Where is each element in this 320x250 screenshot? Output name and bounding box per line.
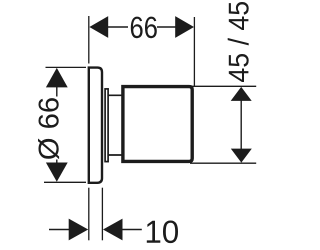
stem top line: [108, 94, 124, 96]
dim 66 top: right arrow: [175, 16, 194, 38]
dim 45/45 right: dimension line: [240, 98, 242, 150]
dim Ø66 left: up arrow: [46, 68, 68, 88]
handle knob (thick outline): [123, 87, 192, 162]
dim 66 top: right extension line: [193, 17, 195, 86]
dim 10 bottom: right tail line: [122, 229, 142, 231]
dim 66 top: value label: [131, 17, 157, 39]
dim 10 bottom: right extension line: [101, 188, 103, 241]
dim 10 bottom: value label: [147, 221, 178, 244]
dim 45/45 right: top boundary line: [191, 85, 256, 87]
dim Ø66 left: bottom extension line: [44, 181, 86, 183]
dim 66 top: dimension line right segment: [157, 26, 177, 28]
stem bottom line: [108, 154, 124, 156]
dim 10 bottom: left tail line: [49, 229, 70, 231]
dim 10 bottom: right arrow (points left): [103, 219, 123, 241]
dim 66 top: dimension line left segment: [106, 26, 128, 28]
dim Ø66 left: dimension line lower stub: [56, 160, 58, 164]
dim 45/45 right: value label (rotated): [228, 2, 249, 82]
dim Ø66 left: down arrow: [46, 163, 68, 182]
dim Ø66 left: dimension line upper stub: [56, 87, 58, 97]
dim 45/45 right: bottom boundary line: [190, 162, 256, 164]
dim 45/45 right: down arrow: [231, 149, 252, 163]
dim 66 top: left arrow: [89, 16, 108, 38]
dim Ø66 left: value label (rotated): [38, 98, 59, 159]
dim 45/45 right: up arrow: [231, 87, 252, 101]
dim 66 top: left extension line: [88, 16, 90, 64]
neck sleeve: [105, 89, 108, 162]
dim Ø66 left: top extension line: [46, 66, 87, 68]
dim 10 bottom: left extension line: [88, 188, 90, 241]
dim 10 bottom: left arrow (points right): [69, 219, 89, 241]
escutcheon plate (side view, flat wall side left, rounded front right): [89, 68, 102, 183]
